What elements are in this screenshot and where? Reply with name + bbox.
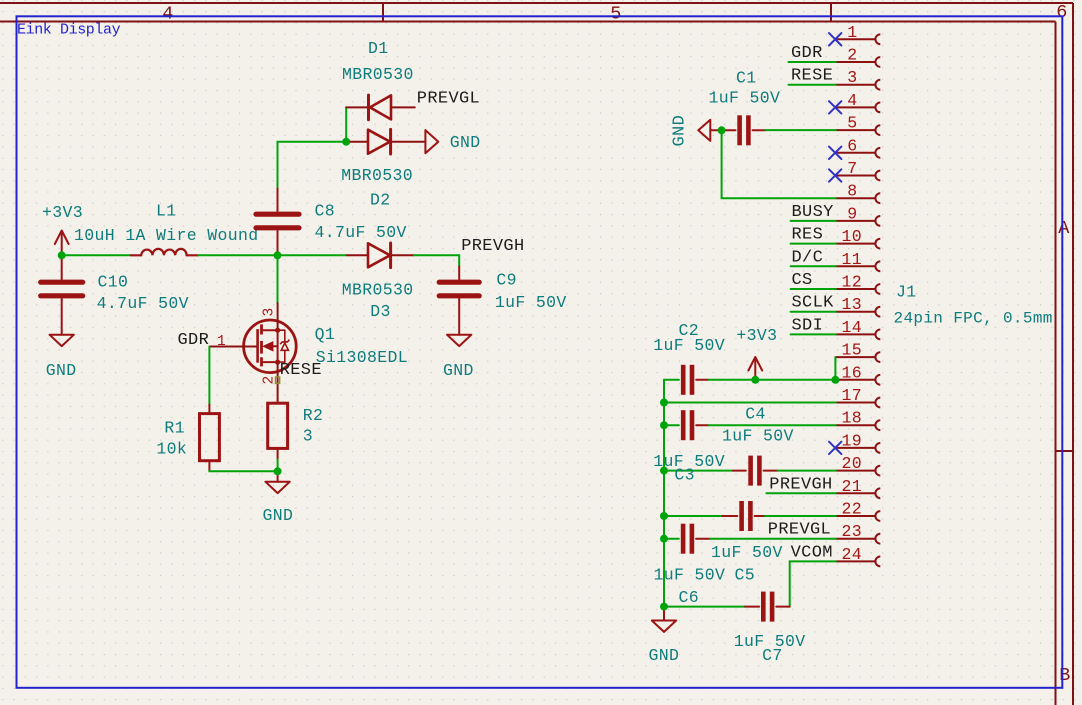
wire net RESE to J1 pin 3 — [789, 84, 836, 86]
net label PREVGL (at D1 anode) — [417, 89, 480, 108]
net label PREVGL (pin 23) — [768, 521, 831, 540]
wire net CS to J1 pin 12 — [791, 288, 836, 290]
no-connect flag at J1 pin 7 — [829, 169, 841, 181]
svg-text:RES: RES — [792, 226, 824, 245]
J1 pin 6 number — [847, 136, 857, 155]
capacitor C6 — [664, 524, 710, 554]
svg-text:A: A — [1058, 218, 1070, 239]
J1 pin 16 — [836, 375, 881, 385]
label J1 value 24pin FPC, 0.5mm — [894, 309, 1053, 327]
svg-text:1uF 50V: 1uF 50V — [654, 565, 726, 584]
J1 pin 22 — [836, 511, 881, 521]
svg-text:1uF 50V: 1uF 50V — [709, 88, 781, 107]
wire net SCLK to J1 pin 13 — [791, 311, 836, 313]
power port GND at D2 cathode — [425, 130, 480, 153]
label C4 reference — [745, 405, 766, 424]
label D1 value MBR0530 — [342, 65, 414, 84]
label C2 reference — [679, 321, 700, 340]
svg-text:C5: C5 — [735, 565, 756, 584]
net label GDR (pin 2) — [791, 44, 823, 63]
J1 pin 5 number — [847, 114, 857, 133]
capacitor C5 — [664, 501, 765, 531]
junction node at +3V3 / pin16 wire — [751, 376, 759, 384]
label L1 reference — [156, 201, 177, 220]
net label SDI (pin 14) — [792, 316, 824, 335]
label R2 reference — [303, 406, 324, 425]
label C6 reference — [679, 588, 700, 607]
J1 pin 17 — [836, 398, 881, 408]
svg-text:PREVGL: PREVGL — [768, 521, 831, 540]
wire D3 cathode to C9 (net PREVGH) — [414, 255, 459, 266]
wire SW node down to Q1 drain — [277, 255, 279, 303]
label C4 value 1uF 50V — [722, 427, 794, 446]
J1 pin 17 number — [842, 386, 863, 405]
svg-text:MBR0530: MBR0530 — [342, 280, 414, 299]
net label PREVGH (pin 21) — [769, 475, 832, 494]
label Q1 reference — [315, 325, 336, 344]
svg-text:D1: D1 — [368, 39, 389, 58]
svg-text:4: 4 — [847, 91, 857, 110]
svg-text:C10: C10 — [98, 273, 129, 292]
net label D/C (pin 11) — [792, 248, 824, 267]
wire C2 to J1 pin 16 — [709, 379, 836, 381]
J1 pin 24 number — [842, 545, 863, 564]
svg-text:SDI: SDI — [792, 316, 824, 335]
svg-text:10k: 10k — [156, 440, 187, 459]
svg-text:4.7uF 50V: 4.7uF 50V — [315, 223, 407, 242]
Q1 pin 3 number (drain) — [262, 307, 278, 316]
wire net RES to J1 pin 10 — [791, 243, 836, 245]
wire C3 to J1 pin 20 — [778, 470, 836, 472]
svg-text:1uF 50V: 1uF 50V — [653, 336, 725, 355]
wire C4 to J1 pin 18 — [709, 424, 836, 426]
svg-text:1uF 50V: 1uF 50V — [711, 543, 783, 562]
label C6 value 1uF 50V — [654, 565, 726, 584]
svg-text:5: 5 — [847, 114, 857, 133]
net label RESE (at Q1 source) — [280, 361, 322, 380]
svg-text:4: 4 — [162, 4, 173, 25]
junction node D1/D2 anodes — [342, 138, 350, 146]
svg-text:13: 13 — [842, 295, 863, 314]
wire GND bus vertical (C2..C7) — [663, 380, 665, 607]
J1 pin 23 number — [842, 522, 863, 541]
net label CS (pin 12) — [792, 271, 813, 290]
J1 pin 4 number — [847, 91, 857, 110]
svg-text:14: 14 — [842, 318, 863, 337]
label Q1 value Si1308EDL — [316, 348, 408, 367]
label L1 value 10uH 1A Wire Wound — [74, 226, 259, 245]
J1 pin 10 — [836, 239, 881, 249]
label J1 reference — [896, 283, 917, 302]
label D2 value MBR0530 — [341, 166, 413, 185]
junction node bus / C4 — [660, 421, 668, 429]
svg-text:3: 3 — [303, 426, 313, 445]
svg-text:GDR: GDR — [791, 44, 823, 63]
junction node bus / C6 — [660, 535, 668, 543]
wire J1 pin 24 down to C7 — [790, 561, 836, 606]
svg-text:6: 6 — [847, 136, 857, 155]
wire net PREVGH to J1 pin 21 — [766, 492, 835, 494]
junction node at +3V3 / C10 — [58, 251, 66, 259]
wire C5 to J1 pin 22 — [765, 515, 836, 517]
J1 pin 7 — [836, 171, 881, 181]
svg-text:GND: GND — [443, 361, 474, 380]
power port GND (input, at C1) — [671, 115, 722, 147]
svg-text:R2: R2 — [303, 406, 324, 425]
label C3 reference — [674, 466, 695, 485]
svg-text:D3: D3 — [370, 302, 391, 321]
svg-text:24: 24 — [842, 545, 863, 564]
svg-text:3: 3 — [847, 68, 857, 87]
net label RESE (pin 3) — [791, 67, 833, 86]
label C8 value 4.7uF 50V — [315, 223, 407, 242]
svg-text:C4: C4 — [745, 405, 766, 424]
svg-text:+3V3: +3V3 — [736, 326, 777, 345]
svg-text:J1: J1 — [896, 283, 917, 302]
svg-text:C1: C1 — [736, 68, 757, 87]
svg-text:10uH 1A Wire Wound: 10uH 1A Wire Wound — [74, 226, 259, 245]
svg-text:VCOM: VCOM — [791, 543, 833, 562]
svg-text:MBR0530: MBR0530 — [342, 65, 414, 84]
svg-text:20: 20 — [842, 454, 863, 473]
wire R1 bottom to ground node — [209, 470, 277, 472]
J1 pin 8 number — [847, 182, 857, 201]
J1 pin 19 number — [842, 431, 863, 450]
junction node SW (L1 / C8 / Q1 drain) — [274, 251, 282, 259]
svg-text:12: 12 — [842, 273, 863, 292]
J1 pin 23 — [836, 534, 881, 544]
capacitor C4 — [664, 410, 709, 440]
J1 pin 11 — [836, 261, 881, 271]
ground symbol below R1/R2 — [263, 471, 294, 525]
wire net SDI to J1 pin 14 — [791, 333, 836, 335]
J1 pin 18 — [836, 420, 881, 430]
J1 pin 20 — [836, 466, 881, 476]
label C10 value 4.7uF 50V — [97, 294, 189, 313]
svg-text:C7: C7 — [762, 646, 783, 665]
svg-text:GND: GND — [263, 506, 294, 525]
label C7 value 1uF 50V — [734, 632, 806, 651]
J1 pin 15 number — [842, 341, 863, 360]
svg-text:PREVGL: PREVGL — [417, 89, 480, 108]
J1 pin 9 number — [847, 204, 857, 223]
diode D1 (cathode left) — [346, 95, 415, 120]
wire C6 to J1 pin 23 — [710, 538, 836, 540]
junction node bus / C3 — [660, 467, 668, 475]
no-connect flag at J1 pin 4 — [829, 101, 841, 113]
J1 pin 18 number — [842, 409, 863, 428]
svg-text:GND: GND — [649, 646, 680, 665]
wire L1 to D3 anode (through SW node) — [198, 254, 347, 256]
J1 pin 5 — [836, 125, 881, 135]
svg-text:Si1308EDL: Si1308EDL — [316, 348, 408, 367]
svg-text:D/C: D/C — [792, 248, 824, 267]
J1 pin 4 — [836, 103, 881, 113]
capacitor C2 — [664, 365, 709, 395]
svg-text:24pin FPC, 0.5mm: 24pin FPC, 0.5mm — [894, 309, 1053, 327]
svg-text:L1: L1 — [156, 201, 177, 220]
svg-text:1uF 50V: 1uF 50V — [722, 427, 794, 446]
svg-text:MBR0530: MBR0530 — [341, 166, 413, 185]
svg-text:C8: C8 — [315, 202, 336, 221]
J1 pin 22 number — [842, 500, 863, 519]
J1 pin 14 number — [842, 318, 863, 337]
J1 pin 2 — [836, 57, 881, 67]
J1 pin 16 number — [842, 363, 863, 382]
label C3 value 1uF 50V — [653, 452, 725, 471]
J1 pin 21 — [836, 488, 881, 498]
wire net BUSY to J1 pin 9 — [791, 220, 836, 222]
label R1 reference — [164, 419, 185, 438]
Q1 pin 2 number (source) — [262, 375, 280, 384]
J1 pin 1 number — [847, 23, 857, 42]
label C10 reference — [98, 273, 129, 292]
svg-text:21: 21 — [842, 477, 863, 496]
svg-text:+3V3: +3V3 — [42, 203, 83, 222]
J1 pin 19 — [836, 443, 881, 453]
capacitor C3 — [664, 456, 778, 486]
svg-text:C6: C6 — [679, 588, 700, 607]
svg-text:2: 2 — [847, 46, 857, 65]
sheet name Eink Display — [17, 21, 121, 38]
junction node bus / pin 17 wire — [660, 399, 668, 407]
svg-text:RESE: RESE — [791, 67, 833, 86]
wire C1 to J1 pin 5 — [765, 129, 836, 131]
svg-text:1uF 50V: 1uF 50V — [495, 293, 567, 312]
svg-text:22: 22 — [842, 500, 863, 519]
resistor R1 — [200, 405, 220, 471]
svg-text:1: 1 — [217, 334, 226, 350]
svg-text:Q1: Q1 — [315, 325, 336, 344]
J1 pin 21 number — [842, 477, 863, 496]
ground symbol at bus bottom — [649, 607, 680, 665]
Q1 pin 1 number (gate) — [217, 334, 226, 350]
svg-text:19: 19 — [842, 431, 863, 450]
svg-text:SCLK: SCLK — [792, 294, 835, 313]
label C5 value 1uF 50V — [711, 543, 783, 562]
wire net GDR to J1 pin 2 — [789, 61, 836, 63]
svg-text:1: 1 — [847, 23, 857, 42]
svg-text:23: 23 — [842, 522, 863, 541]
capacitor C8 — [256, 187, 299, 255]
junction node bus bottom / C7 — [660, 603, 668, 611]
diode D2 (cathode right) — [346, 129, 425, 154]
J1 pin 12 — [836, 284, 881, 294]
net label BUSY (pin 9) — [792, 203, 834, 222]
J1 pin 9 — [836, 216, 881, 226]
wire GDR node down to R1 — [208, 347, 210, 405]
junction node bus / C5 — [660, 512, 668, 520]
svg-text:15: 15 — [842, 341, 863, 360]
label C1 value 1uF 50V — [709, 88, 781, 107]
power flag +3V3 (right) — [736, 326, 777, 380]
J1 pin 3 — [836, 80, 881, 90]
wire GND bus to J1 pin 17 — [664, 402, 836, 404]
svg-text:RESE: RESE — [280, 361, 322, 380]
svg-text:C9: C9 — [496, 270, 517, 289]
J1 pin 2 number — [847, 46, 857, 65]
label R1 value 10k — [156, 440, 187, 459]
no-connect flag at J1 pin 1 — [829, 33, 841, 45]
svg-text:PREVGH: PREVGH — [461, 237, 524, 256]
J1 pin 1 — [836, 34, 881, 44]
wire net D/C to J1 pin 11 — [791, 265, 836, 267]
svg-text:C3: C3 — [674, 466, 695, 485]
svg-text:Eink Display: Eink Display — [17, 21, 121, 38]
wire J1 pin 15 to pin 16 — [834, 357, 836, 380]
ground symbol below C10 — [46, 335, 77, 380]
svg-text:10: 10 — [842, 227, 863, 246]
transistor Q1 (N-MOSFET Si1308EDL) — [209, 303, 296, 403]
J1 pin 6 — [836, 148, 881, 158]
label C2 value 1uF 50V — [653, 336, 725, 355]
label D1 reference — [368, 39, 389, 58]
J1 pin 14 — [836, 330, 881, 340]
svg-text:R1: R1 — [164, 419, 185, 438]
J1 pin 7 number — [847, 159, 857, 178]
svg-text:GND: GND — [671, 115, 690, 147]
net label PREVGH (at C9) — [461, 237, 524, 256]
power flag +3V3 (left) — [42, 203, 83, 255]
svg-text:CS: CS — [792, 271, 813, 290]
svg-text:D2: D2 — [370, 190, 391, 209]
net label SCLK (pin 13) — [792, 294, 835, 313]
inductor L1 — [131, 249, 198, 255]
svg-text:9: 9 — [847, 204, 857, 223]
resistor R2 — [268, 403, 288, 471]
junction node at J1 pin 16 — [831, 376, 839, 384]
label C1 reference — [736, 68, 757, 87]
svg-text:16: 16 — [842, 363, 863, 382]
J1 pin 12 number — [842, 273, 863, 292]
svg-text:17: 17 — [842, 386, 863, 405]
svg-text:7: 7 — [847, 159, 857, 178]
J1 pin 20 number — [842, 454, 863, 473]
wire C8 up to D1/D2 anode node — [278, 142, 347, 187]
capacitor C10 — [41, 255, 83, 334]
J1 pin 15 — [836, 352, 881, 362]
wire +3V3 node to L1 — [62, 254, 131, 256]
no-connect flag at J1 pin 19 — [829, 442, 841, 454]
svg-text:GND: GND — [450, 133, 481, 152]
J1 pin 10 number — [842, 227, 863, 246]
svg-text:BUSY: BUSY — [792, 203, 834, 222]
wire junction up to D1 — [345, 107, 347, 141]
label R2 value 3 — [303, 426, 313, 445]
no-connect flag at J1 pin 6 — [829, 147, 841, 159]
label D3 reference — [370, 302, 391, 321]
J1 pin 24 — [836, 557, 881, 567]
svg-text:GND: GND — [46, 361, 77, 380]
label C8 reference — [315, 202, 336, 221]
J1 pin 3 number — [847, 68, 857, 87]
label C7 reference — [762, 646, 783, 665]
label C5 reference — [735, 565, 756, 584]
net label GDR (at Q1 gate) — [178, 331, 210, 350]
svg-text:4.7uF 50V: 4.7uF 50V — [97, 294, 189, 313]
J1 pin 11 number — [842, 250, 863, 269]
capacitor C9 — [439, 267, 479, 335]
svg-text:18: 18 — [842, 409, 863, 428]
capacitor C7 — [664, 592, 790, 622]
label C9 value 1uF 50V — [495, 293, 567, 312]
net label RES (pin 10) — [792, 226, 824, 245]
label C9 reference — [496, 270, 517, 289]
svg-text:PREVGH: PREVGH — [769, 475, 832, 494]
J1 pin 8 — [836, 193, 881, 203]
J1 pin 13 — [836, 307, 881, 317]
diode D3 (cathode right) — [347, 243, 414, 268]
ground symbol below C9 — [443, 335, 474, 380]
label D2 reference — [370, 190, 391, 209]
capacitor C1 — [722, 115, 766, 145]
label D3 value MBR0530 — [342, 280, 414, 299]
net label VCOM (pin 24) — [791, 543, 833, 562]
svg-text:5: 5 — [610, 4, 621, 25]
svg-text:GDR: GDR — [178, 331, 210, 350]
J1 pin 13 number — [842, 295, 863, 314]
svg-text:11: 11 — [842, 250, 863, 269]
svg-text:3: 3 — [262, 307, 278, 316]
wire GND node down to J1 pin 8 — [722, 130, 836, 198]
junction node R1/R2 ground — [274, 467, 282, 475]
svg-text:8: 8 — [847, 182, 857, 201]
svg-text:B: B — [1059, 665, 1070, 686]
junction node GND / C1 — [718, 126, 726, 134]
